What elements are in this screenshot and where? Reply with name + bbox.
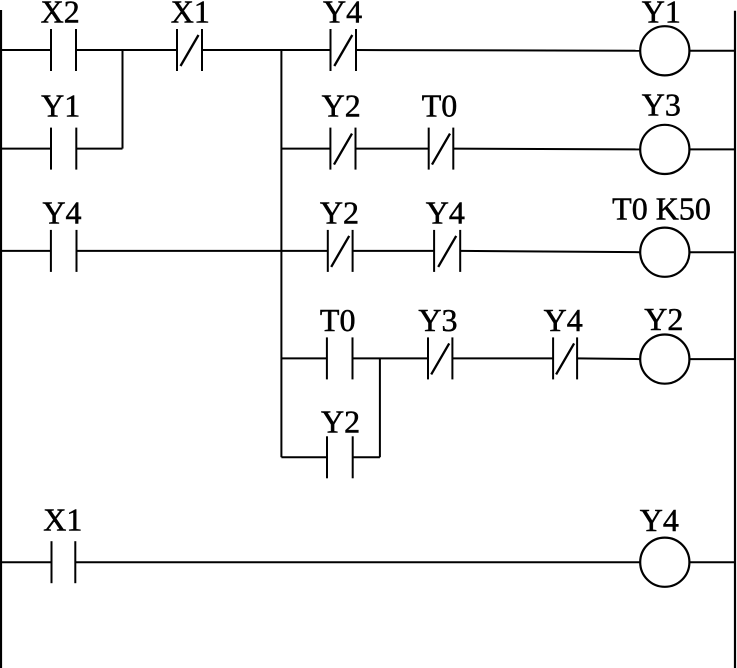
wire rung2: rail to Y1 bbox=[0, 148, 51, 150]
wire rung1: coil Y1 to right rail bbox=[689, 50, 735, 52]
wire rung6: X1 to coil Y4 bbox=[75, 561, 640, 563]
svg-text:Y3: Y3 bbox=[642, 87, 681, 123]
coil Y3 bbox=[640, 125, 689, 174]
svg-text:Y4: Y4 bbox=[640, 502, 679, 538]
contact Y1 (NO) rung2 bbox=[50, 128, 52, 170]
wire rung3: Y2 to Y4 bbox=[353, 250, 435, 252]
wire rung1: Y4 to coil Y1 bbox=[356, 49, 640, 52]
svg-text:Y2: Y2 bbox=[322, 88, 361, 124]
wire rung4: coil Y2 to right rail bbox=[689, 358, 735, 360]
wire branch A vertical (parallel X2/Y1) bbox=[122, 50, 124, 149]
svg-text:Y4: Y4 bbox=[426, 195, 465, 231]
svg-text:X2: X2 bbox=[41, 0, 80, 30]
contact X1 (NC) rung1 bbox=[176, 29, 178, 71]
wire rung6: rail to X1 bbox=[0, 561, 52, 563]
wire rung4: Y4 to coil Y2 bbox=[577, 357, 640, 360]
contact Y2 (NC) rung3 bbox=[327, 230, 329, 272]
wire rung5: bus to Y2 bbox=[281, 456, 327, 458]
svg-text:Y4: Y4 bbox=[42, 195, 81, 231]
svg-text:X1: X1 bbox=[43, 502, 82, 538]
wire rung3: Y4 to coil T0 bbox=[460, 251, 640, 252]
svg-text:X1: X1 bbox=[171, 0, 210, 30]
contact Y4 (NC) rung3 bbox=[433, 230, 435, 272]
svg-text:Y4: Y4 bbox=[544, 302, 583, 338]
svg-text:Y1: Y1 bbox=[41, 88, 80, 124]
contact Y4 (NC) rung4 bbox=[552, 337, 554, 379]
coil Y4 bbox=[640, 538, 689, 587]
svg-text:Y2: Y2 bbox=[644, 301, 683, 337]
contact Y2 (NC) rung2 bbox=[329, 128, 331, 170]
wire rung4: T0 to Y3 bbox=[353, 357, 429, 359]
wire rung2: coil Y3 to right rail bbox=[689, 148, 735, 150]
contact Y4 (NC) rung1 bbox=[330, 29, 332, 71]
right power rail bbox=[734, 11, 736, 668]
contact Y3 (NC) rung4 bbox=[427, 337, 429, 379]
wire rung1: X1 to Y4 bbox=[202, 49, 331, 51]
coil Y2 bbox=[640, 335, 689, 384]
coil T0 K50 bbox=[640, 228, 689, 277]
svg-text:Y2: Y2 bbox=[321, 404, 360, 440]
contact X1 (NO) rung6 bbox=[51, 541, 53, 583]
svg-text:Y4: Y4 bbox=[323, 0, 362, 30]
wire rung4: Y3 to Y4 bbox=[452, 357, 553, 359]
wire rung1: rail to X2 bbox=[0, 49, 51, 51]
wire rung1: X2 to X1 bbox=[76, 49, 177, 51]
contact Y2 (NO) rung5 bbox=[326, 436, 328, 478]
contact X2 (NO) rung1 bbox=[50, 29, 52, 71]
wire rung3: rail to Y4 bbox=[0, 250, 51, 252]
wire rung6: coil Y4 to right rail bbox=[689, 561, 735, 563]
svg-text:T0: T0 bbox=[320, 302, 356, 338]
wire rung2: Y1 to branch node bbox=[76, 148, 122, 150]
contact T0 (NO) rung4 bbox=[326, 337, 328, 379]
svg-text:Y1: Y1 bbox=[642, 0, 681, 30]
left power rail bbox=[0, 10, 2, 668]
svg-text:Y2: Y2 bbox=[320, 195, 359, 231]
wire bus B vertical (from rung1 down to rung5) bbox=[280, 50, 282, 457]
wire rung2: bus to Y2 bbox=[281, 148, 330, 150]
wire rung3: Y4 across bus to Y2 bbox=[77, 250, 328, 252]
svg-text:Y3: Y3 bbox=[418, 302, 457, 338]
wire branch C vertical (parallel T0/Y2) bbox=[379, 358, 381, 457]
wire rung4: bus to T0 bbox=[281, 357, 327, 359]
wire rung3: coil T0 to right rail bbox=[689, 251, 735, 253]
wire rung2: T0 to coil Y3 bbox=[453, 148, 640, 151]
contact T0 (NC) rung2 bbox=[428, 128, 430, 170]
contact Y4 (NO) rung3 bbox=[50, 230, 52, 272]
svg-text:T0: T0 bbox=[422, 88, 458, 124]
wire rung2: Y2 to T0 bbox=[356, 148, 429, 150]
wire rung5: Y2 to branch C bbox=[353, 456, 380, 458]
coil Y1 bbox=[640, 26, 689, 75]
svg-text:T0 K50: T0 K50 bbox=[612, 191, 711, 227]
